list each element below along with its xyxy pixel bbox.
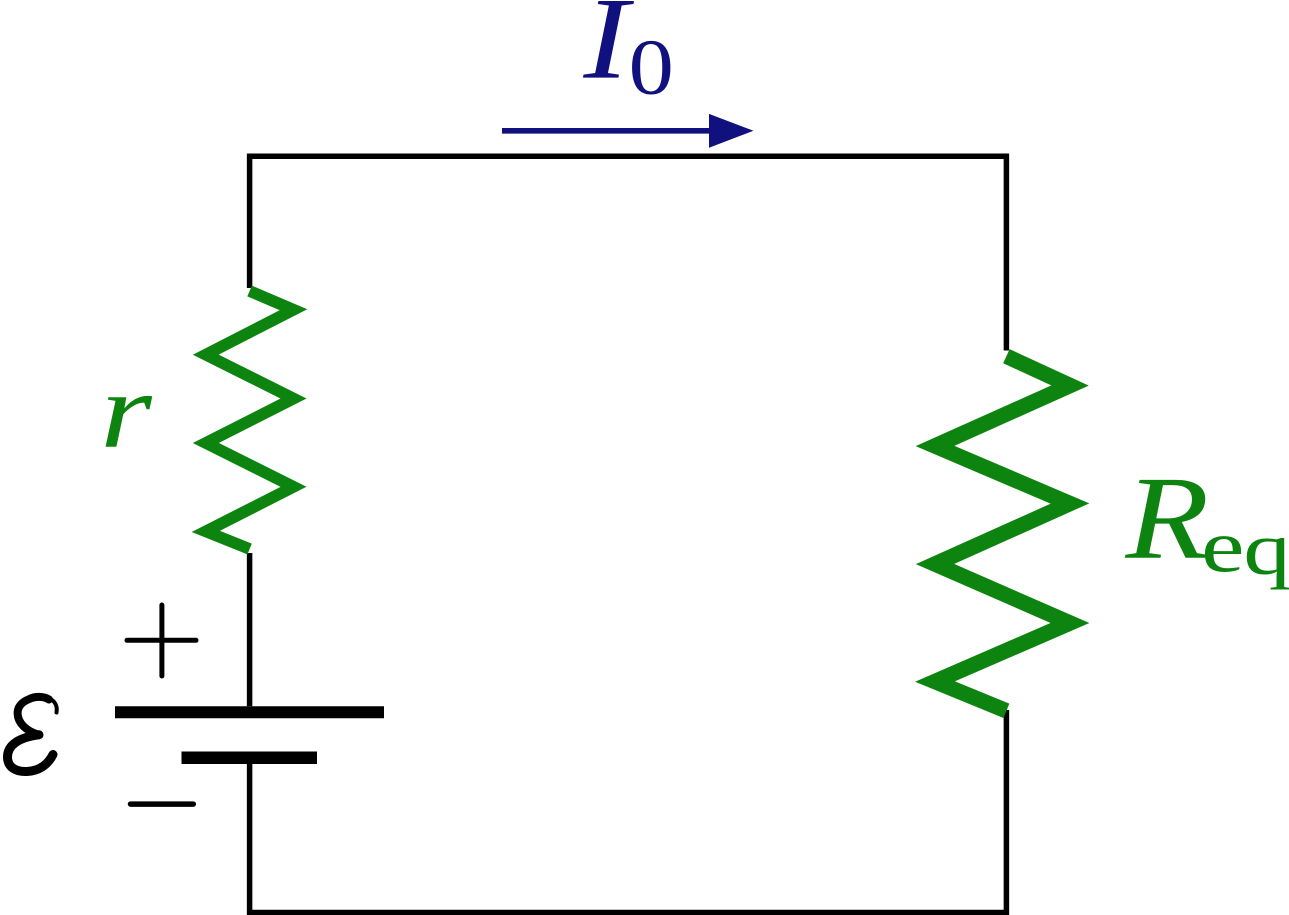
svg-text:I: I [582, 0, 634, 103]
svg-text:r: r [100, 351, 153, 471]
svg-text:0: 0 [629, 23, 674, 111]
svg-text:q: q [1243, 508, 1289, 590]
svg-text:e: e [1201, 506, 1244, 588]
svg-text:R: R [1124, 452, 1209, 584]
